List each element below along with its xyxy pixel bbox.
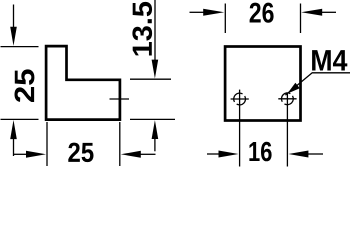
label M4 <box>312 50 347 70</box>
dimension 25 vertical: arrow down <box>10 27 17 46</box>
dimension 26: right extension line <box>300 4 302 34</box>
hole right: thread circle arcs <box>281 93 293 105</box>
dimension 16: left arrow <box>219 151 239 158</box>
hole left: crosshair horizontal <box>231 98 249 100</box>
label 13.5 (rotated) <box>132 2 152 56</box>
L-shaped part outline (left view) <box>46 46 120 120</box>
M4 leader line <box>285 73 350 95</box>
center tick on right edge of part <box>110 98 130 100</box>
extension line bottom left <box>1 118 39 120</box>
hole right: crosshair horizontal <box>278 98 296 100</box>
dimension 13.5: bottom extension line <box>130 118 175 120</box>
dimension 26: left extension line <box>224 4 226 34</box>
dimension 25 vertical: upper line <box>13 5 15 28</box>
hole left: thread circle arcs <box>234 93 246 105</box>
label 25 (rotated) <box>15 69 35 102</box>
dimension 25 bottom: left leader <box>14 153 28 155</box>
dimension 13.5: arrow down <box>152 60 159 79</box>
dimension 26: right leader <box>322 11 336 13</box>
dimension 13.5: arrow up <box>152 120 159 139</box>
square plate outline (right view) <box>225 47 300 121</box>
hole right: vertical centerline <box>286 94 288 167</box>
dimension 26: left arrow <box>203 9 224 16</box>
dimension 25 bottom: right arrow <box>121 151 141 158</box>
dimension 16: left leader <box>207 153 220 155</box>
dimension 13.5: step extension line <box>130 78 171 80</box>
dimension 25 bottom: right leader <box>140 153 155 155</box>
dimension 16: right arrow <box>288 151 308 158</box>
dimension 25 vertical: arrow up <box>10 120 17 139</box>
dimension 25 bottom: left arrow <box>26 151 46 158</box>
M4 leader arrowhead <box>287 83 300 94</box>
dimension 16: right leader <box>308 153 323 155</box>
label 26 <box>250 3 274 23</box>
dimension 26: right arrow <box>301 9 322 16</box>
dimension 13.5: upper line <box>154 0 156 61</box>
dimension 13.5: lower line <box>154 138 156 151</box>
hole left: vertical centerline <box>239 90 241 167</box>
label 25 bottom <box>68 143 93 162</box>
dimension 25 vertical: lower line <box>13 138 15 156</box>
label 16 <box>249 142 271 162</box>
dimension 25 bottom: left extension line <box>46 122 48 166</box>
dimension 26: left leader <box>190 11 205 13</box>
extension line top left <box>1 46 39 48</box>
dimension 25 bottom: right extension line <box>119 122 121 166</box>
